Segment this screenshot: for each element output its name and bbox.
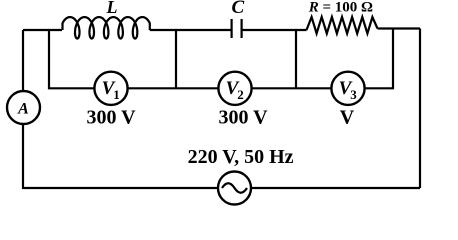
wire left vertical: [22, 30, 24, 91]
resistor R zigzag: [307, 17, 378, 34]
svg-text:V: V: [340, 107, 355, 129]
wire V1 to V2: [128, 87, 219, 89]
svg-text:L: L: [106, 0, 118, 17]
voltmeter V1: [94, 72, 127, 105]
wire coil to capacitor: [150, 29, 231, 31]
wire junction L-C drop: [175, 29, 177, 88]
svg-text:220 V, 50 Hz: 220 V, 50 Hz: [188, 146, 294, 168]
wire capacitor to resistor: [242, 29, 306, 31]
voltmeter V3: [331, 72, 364, 105]
svg-text:R = 100 Ω: R = 100 Ω: [308, 0, 373, 16]
wire junction left drop: [49, 29, 94, 88]
wire bottom right: [251, 187, 420, 189]
svg-text:C: C: [231, 0, 244, 18]
svg-text:1: 1: [113, 87, 120, 102]
svg-text:3: 3: [350, 87, 357, 102]
wire V2 to V3: [252, 87, 332, 89]
AC source: [218, 172, 251, 205]
capacitor C plates: [232, 19, 242, 38]
wire V3 to right riser: [365, 29, 393, 88]
wire junction C-R drop: [295, 29, 297, 88]
svg-text:300 V: 300 V: [218, 107, 268, 129]
ammeter A: [7, 91, 40, 124]
voltmeter V2: [218, 72, 251, 105]
svg-text:300 V: 300 V: [86, 107, 136, 129]
svg-text:2: 2: [237, 87, 244, 102]
inductor L1 coil: [63, 17, 150, 38]
wire top-left horizontal: [23, 29, 62, 31]
wire right vertical: [419, 29, 421, 189]
wire bottom left: [23, 124, 218, 188]
svg-text:A: A: [17, 101, 29, 118]
wire resistor to top-right corner: [378, 27, 421, 29]
